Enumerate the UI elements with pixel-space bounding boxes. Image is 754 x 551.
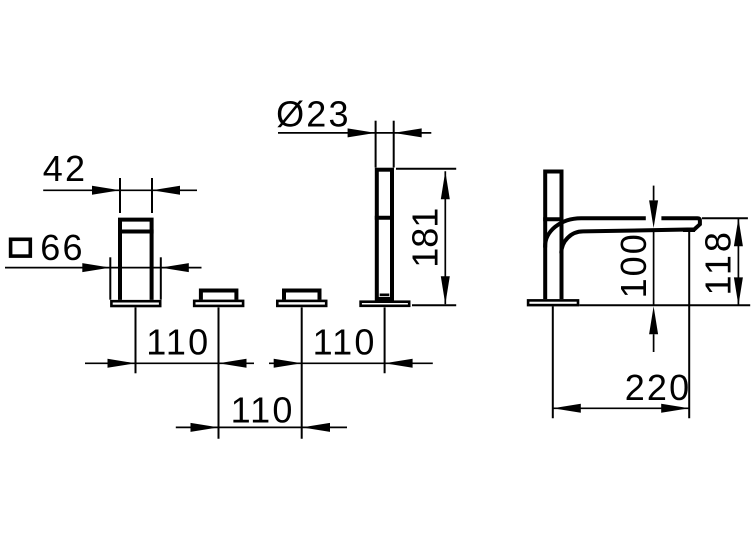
svg-text:100: 100	[613, 232, 654, 298]
svg-text:118: 118	[698, 229, 739, 295]
svg-text:110: 110	[146, 322, 210, 363]
svg-text:42: 42	[43, 148, 87, 189]
svg-text:Ø23: Ø23	[276, 93, 351, 134]
svg-text:110: 110	[313, 322, 377, 363]
svg-text:181: 181	[405, 208, 446, 268]
svg-text:110: 110	[231, 389, 295, 430]
svg-text:66: 66	[40, 227, 84, 268]
svg-text:220: 220	[625, 367, 692, 408]
